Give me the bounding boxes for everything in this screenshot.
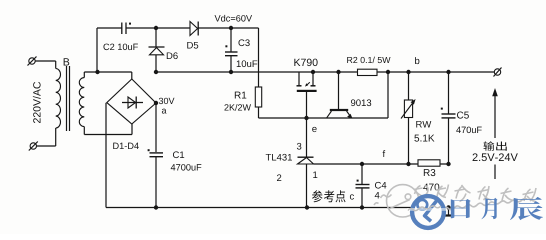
resistor R2 — [358, 69, 378, 75]
junction dot — [406, 162, 410, 166]
wire segment — [149, 46, 165, 48]
label 4700uF — [171, 164, 202, 171]
wire segment — [121, 23, 123, 35]
wire segment — [105, 103, 107, 208]
junction dot — [360, 162, 364, 166]
wire segment — [408, 72, 410, 100]
label C2 10uF — [103, 44, 137, 51]
label R2 0.1/ 5W — [347, 57, 390, 63]
label B — [64, 58, 70, 65]
wire segment — [312, 72, 314, 86]
label 10uF — [237, 60, 258, 67]
resistor R1 — [255, 87, 261, 107]
bridge rectifier D1-D4 — [107, 79, 156, 124]
wire segment — [306, 92, 308, 118]
label 2.5V-24V — [473, 153, 518, 161]
wire segment — [131, 72, 133, 79]
MOSFET gate plate — [297, 90, 317, 92]
wire segment — [84, 71, 132, 73]
wire segment — [230, 56, 232, 72]
watermark 日 — [451, 199, 471, 218]
wire segment — [155, 103, 157, 152]
junction dot — [95, 70, 99, 74]
wire segment — [84, 134, 132, 136]
label 5.1K — [414, 135, 434, 142]
wire segment — [155, 157, 157, 208]
wire segment — [83, 127, 85, 135]
junction dot — [154, 101, 158, 105]
wire segment — [494, 165, 496, 180]
wire segment — [448, 118, 450, 164]
junction dot — [406, 70, 410, 74]
junction dot — [154, 205, 158, 209]
label C1 — [173, 151, 184, 158]
junction dot — [229, 70, 233, 74]
junction dot — [229, 26, 233, 30]
label 2K/2W — [224, 104, 251, 111]
wire segment — [314, 163, 449, 165]
wire segment — [448, 72, 450, 114]
wire segment — [298, 72, 300, 86]
label 30V — [159, 98, 175, 104]
label 输出 — [483, 141, 494, 150]
label 9013 — [351, 99, 371, 106]
wire segment — [298, 156, 314, 158]
junction dot — [304, 116, 308, 120]
label C3 — [238, 39, 249, 46]
wire segment — [55, 128, 57, 146]
wire segment — [131, 124, 133, 135]
wire segment — [361, 188, 363, 208]
terminal AC input bottom — [30, 143, 36, 149]
wire segment — [97, 27, 190, 29]
wire segment — [122, 102, 143, 104]
wire segment — [448, 208, 450, 216]
wire segment — [155, 28, 157, 47]
wire segment — [356, 184, 370, 186]
label D6 — [167, 52, 178, 59]
wire segment — [28, 57, 37, 66]
label R3 — [424, 169, 436, 176]
wire segment — [125, 23, 127, 35]
diode D5 — [190, 22, 198, 36]
wire segment — [259, 117, 389, 119]
label b — [415, 57, 419, 64]
label c — [350, 194, 354, 199]
wire segment — [225, 55, 238, 57]
watermark 月 — [481, 198, 497, 219]
label 220V/AC — [33, 82, 41, 123]
wire segment — [135, 97, 137, 109]
wire segment — [408, 118, 410, 165]
label R1 — [235, 92, 246, 99]
junction dot — [154, 70, 158, 74]
watermark logo circle — [414, 198, 442, 226]
wire segment — [156, 71, 495, 73]
junction dot — [446, 205, 450, 209]
label 3 — [297, 143, 302, 150]
wire segment — [306, 118, 308, 157]
junction dot — [446, 70, 450, 74]
label 1 — [313, 171, 317, 178]
label 参考点 c — [312, 190, 323, 202]
label TL431 — [266, 154, 292, 161]
transformer B primary winding — [56, 69, 61, 129]
wire segment — [387, 72, 389, 118]
wire segment — [35, 60, 56, 62]
wire segment — [155, 55, 157, 72]
label D1-D4 — [113, 143, 139, 149]
wire segment — [442, 117, 456, 119]
label C5 — [457, 112, 469, 119]
wire segment — [230, 28, 232, 52]
transformer B secondary winding — [79, 78, 84, 127]
resistor R3 — [418, 160, 440, 166]
junction dot — [311, 70, 315, 74]
wire segment — [442, 113, 456, 115]
wire segment — [69, 66, 71, 131]
label RW — [416, 121, 431, 128]
capacitor C2 — [122, 21, 125, 35]
terminal output — [494, 69, 500, 75]
wire segment — [338, 72, 340, 109]
wire segment — [55, 61, 57, 69]
wire segment — [150, 156, 164, 158]
wire segment — [356, 187, 370, 189]
label e — [312, 127, 316, 132]
wire segment — [66, 66, 68, 131]
wire segment — [258, 28, 260, 87]
wire segment — [494, 95, 496, 138]
label 470uF — [456, 127, 482, 134]
wire segment — [225, 51, 238, 53]
junction dot — [154, 26, 158, 30]
label 2 — [277, 174, 281, 181]
terminal AC input top — [29, 58, 35, 64]
wire segment — [96, 28, 98, 72]
wire segment — [494, 68, 502, 77]
label C4 — [375, 182, 386, 189]
watermark strike band over logo — [407, 208, 447, 211]
junction dot — [305, 205, 309, 209]
label Vdc=60V — [215, 15, 253, 22]
wire segment — [29, 142, 38, 151]
watermark 辰 — [510, 197, 543, 220]
label f — [383, 150, 386, 157]
junction dot — [336, 70, 340, 74]
wire segment — [258, 107, 260, 118]
wire segment — [199, 27, 259, 29]
wire segment — [401, 103, 413, 119]
watermark gray signature — [374, 185, 536, 218]
junction dot — [360, 205, 364, 209]
junction dot — [446, 162, 450, 166]
label D5 — [187, 42, 198, 49]
label 470 — [423, 184, 439, 191]
wire segment — [361, 164, 363, 184]
wire segment — [347, 111, 351, 117]
label K790 — [294, 59, 317, 66]
wire segment — [327, 111, 332, 118]
label 4 — [375, 192, 380, 199]
junction dot — [386, 70, 390, 74]
wire segment — [83, 72, 85, 78]
wire segment — [306, 164, 308, 208]
wire segment — [444, 214, 455, 216]
wire segment — [297, 85, 302, 87]
wire segment — [106, 207, 449, 209]
wire segment — [311, 85, 316, 87]
wire segment — [306, 82, 310, 85]
label a — [162, 109, 167, 114]
wire segment — [197, 22, 199, 36]
wire segment — [150, 152, 164, 154]
wire segment — [36, 145, 55, 147]
